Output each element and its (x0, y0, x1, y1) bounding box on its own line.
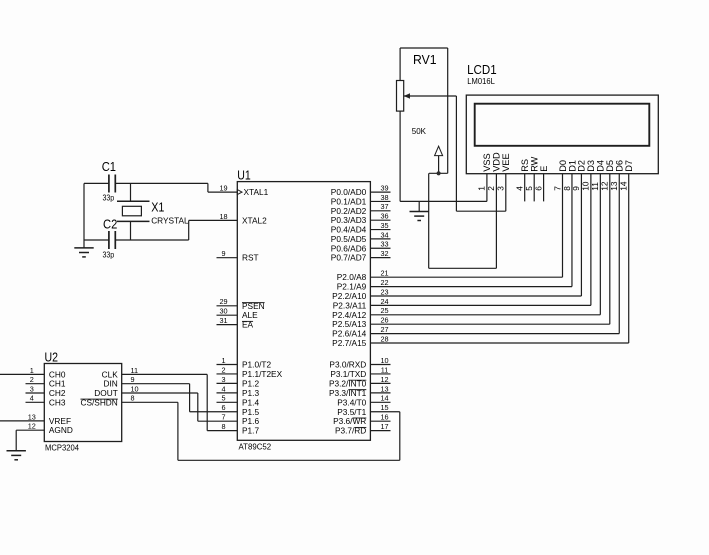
svg-text:12: 12 (28, 422, 36, 431)
wire: step to XTAL1 pin 19 (207, 183, 209, 192)
svg-text:29: 29 (219, 297, 227, 306)
svg-text:50K: 50K (412, 126, 427, 136)
svg-text:LM016L: LM016L (467, 76, 495, 86)
wire: RV1 top lead loop (399, 48, 401, 81)
pin 17 P3.7/RD (370, 430, 390, 432)
svg-text:6: 6 (221, 403, 225, 412)
junction dot power node (437, 171, 441, 175)
pin 14 D7 (628, 174, 630, 343)
svg-text:LCD1: LCD1 (467, 63, 497, 77)
svg-text:2: 2 (30, 375, 34, 384)
ADC U2 box (44, 364, 121, 442)
pin 21 P2.0/A8 (370, 276, 562, 278)
svg-text:3: 3 (221, 375, 225, 384)
svg-text:38: 38 (380, 193, 388, 202)
svg-text:RV1: RV1 (413, 53, 437, 67)
pin 13 P3.3/INT1 (370, 392, 390, 394)
svg-text:VEE: VEE (501, 153, 511, 171)
ground (crystal circuit) (83, 240, 85, 248)
wire: DIN to P1.5 (122, 383, 190, 385)
pin 31 EA (217, 324, 238, 326)
svg-text:3: 3 (496, 186, 506, 191)
svg-text:13: 13 (28, 412, 36, 421)
svg-text:8: 8 (221, 422, 225, 431)
pin 15 P3.5/T1 (370, 411, 399, 413)
svg-text:11: 11 (131, 366, 139, 375)
pin 7 P1.6 (198, 420, 238, 422)
svg-text:3: 3 (30, 384, 34, 393)
svg-text:30: 30 (219, 307, 227, 316)
wire: wiper to VEE (455, 96, 457, 211)
pin 39 P0.0/AD0 (370, 191, 390, 193)
pin 4 RS (524, 174, 526, 202)
svg-text:26: 26 (380, 316, 388, 325)
svg-text:XTAL2: XTAL2 (242, 215, 267, 225)
svg-text:AT89C52: AT89C52 (239, 442, 272, 452)
potentiometer RV1 body (397, 81, 404, 112)
pin 24 P2.3/A11 (370, 304, 590, 306)
pin 23 P2.2/A10 (370, 295, 581, 297)
pin 27 P2.6/A14 (370, 333, 619, 335)
crystal X1 (117, 200, 150, 202)
svg-text:XTAL1: XTAL1 (244, 187, 269, 197)
wire: DOUT to P1.6 (122, 392, 198, 394)
svg-text:7: 7 (221, 413, 225, 422)
pin 36 P0.3/AD3 (370, 219, 390, 221)
svg-text:P2.7/A15: P2.7/A15 (332, 338, 367, 348)
pin 32 P0.7/AD7 (370, 257, 390, 259)
svg-text:U2: U2 (45, 350, 59, 364)
svg-text:E: E (539, 166, 549, 172)
pin 28 P2.7/A15 (370, 342, 628, 344)
svg-text:VSS: VSS (482, 153, 492, 171)
pin 1 P1.0/T2 (217, 364, 238, 366)
pin 4 CH3 (26, 401, 45, 403)
svg-text:CH3: CH3 (49, 397, 66, 407)
svg-text:X1: X1 (151, 201, 164, 215)
svg-text:1: 1 (30, 366, 34, 375)
pin 9 RST (217, 257, 238, 259)
pin 3 CH2 (26, 392, 45, 394)
pin 12 AGND (16, 429, 44, 431)
svg-text:10: 10 (380, 356, 388, 365)
pin 6 E (543, 174, 545, 202)
svg-text:35: 35 (380, 221, 388, 230)
svg-text:19: 19 (219, 184, 227, 193)
ground (U2 AGND) (15, 430, 17, 451)
svg-text:15: 15 (380, 403, 388, 412)
svg-text:C1: C1 (102, 160, 116, 174)
svg-text:14: 14 (380, 394, 388, 403)
pin 16 P3.6/WR (370, 420, 390, 422)
pin 2 VDD (495, 174, 497, 269)
svg-text:6: 6 (533, 186, 543, 191)
svg-text:5: 5 (221, 394, 225, 403)
wire: left vertical (ground net) (83, 183, 85, 240)
pin 11 P3.1/TXD (370, 373, 390, 375)
pin 8 P1.7 (207, 430, 237, 432)
wire: power node to VDD (428, 173, 430, 268)
pin 11 D4 (599, 174, 601, 315)
pin 34 P0.5/AD5 (370, 238, 390, 240)
svg-text:22: 22 (380, 278, 388, 287)
pin 9 D2 (580, 174, 582, 296)
svg-text:RS: RS (520, 159, 530, 172)
svg-text:16: 16 (380, 413, 388, 422)
capacitor C1 (108, 175, 110, 193)
svg-text:27: 27 (380, 325, 388, 334)
svg-text:1: 1 (477, 186, 487, 191)
svg-text:4: 4 (30, 394, 34, 403)
svg-text:28: 28 (380, 334, 388, 343)
power terminal arrow (435, 146, 443, 155)
pin 3 P1.2 (217, 382, 238, 384)
pin 25 P2.4/A12 (370, 314, 600, 316)
pin 6 P1.5 (190, 411, 238, 413)
wire: ground net to VSS (400, 200, 487, 202)
pin 7 D0 (562, 174, 564, 278)
wire: RV1 bottom lead (399, 111, 401, 201)
ground (VSS / RV1) (418, 201, 420, 211)
svg-text:31: 31 (219, 316, 227, 325)
wire: step to XTAL2 pin 18 (188, 220, 190, 240)
wire: crystal top lead (130, 183, 132, 201)
svg-text:34: 34 (380, 230, 388, 239)
pin 8 D1 (571, 174, 573, 287)
svg-text:D7: D7 (624, 160, 634, 172)
svg-text:4: 4 (221, 384, 225, 393)
microcontroller U1 box (237, 182, 370, 441)
svg-text:RST: RST (242, 253, 259, 263)
pin 22 P2.1/A9 (370, 286, 572, 288)
svg-text:13: 13 (380, 384, 388, 393)
overline CS/SHDN (80, 398, 117, 400)
pin 5 RW (533, 174, 535, 202)
svg-text:MCP3204: MCP3204 (45, 442, 79, 452)
svg-text:18: 18 (219, 212, 227, 221)
svg-text:12: 12 (380, 375, 388, 384)
pin 10 D3 (590, 174, 592, 306)
wire: crystal bottom lead (130, 221, 132, 240)
pin 29 PSEN (217, 305, 238, 307)
svg-text:24: 24 (380, 297, 388, 306)
svg-text:AGND: AGND (49, 425, 73, 435)
svg-text:9: 9 (131, 375, 135, 384)
svg-text:17: 17 (380, 422, 388, 431)
LCD display window (475, 104, 650, 146)
pin 14 P3.4/T0 (370, 401, 390, 403)
svg-text:36: 36 (380, 212, 388, 221)
svg-text:U1: U1 (237, 168, 251, 182)
LCD1 display outer box (466, 95, 658, 174)
wire: XTAL2 net horizontal (84, 239, 109, 241)
svg-text:39: 39 (380, 184, 388, 193)
wire: XTAL1 net horizontal (84, 182, 109, 184)
svg-text:32: 32 (380, 249, 388, 258)
svg-text:10: 10 (131, 384, 139, 393)
pin 5 P1.4 (217, 401, 238, 403)
pin 4 P1.3 (217, 392, 238, 394)
pin 1 VSS (486, 174, 488, 202)
svg-text:CRYSTAL: CRYSTAL (151, 216, 189, 226)
svg-text:25: 25 (380, 306, 388, 315)
pin 13 D6 (618, 174, 620, 334)
pin 33 P0.6/AD6 (370, 247, 390, 249)
svg-text:21: 21 (380, 269, 388, 278)
svg-text:23: 23 (380, 287, 388, 296)
pin 10 P3.0/RXD (370, 364, 390, 366)
svg-text:2: 2 (221, 365, 225, 374)
svg-text:P1.7: P1.7 (242, 426, 259, 436)
wire: CS/SHDN to P3.5/T1 (122, 401, 178, 403)
svg-text:33p: 33p (103, 193, 115, 203)
pin 37 P0.2/AD2 (370, 210, 390, 212)
pin 30 ALE (217, 314, 238, 316)
capacitor C2 (108, 231, 110, 249)
pin 35 P0.4/AD4 (370, 229, 390, 231)
svg-text:9: 9 (221, 249, 225, 258)
pin 1 CH0 (0, 373, 44, 375)
svg-text:C2: C2 (103, 218, 117, 232)
pin 13 VREF (0, 420, 44, 422)
svg-text:11: 11 (381, 365, 389, 374)
svg-text:8: 8 (131, 394, 135, 403)
pin 2 P1.1/T2EX (217, 373, 238, 375)
svg-text:33p: 33p (103, 250, 115, 260)
RV1 wiper arrow (404, 93, 410, 99)
pin 12 D5 (609, 174, 611, 325)
svg-text:1: 1 (221, 356, 225, 365)
pin 3 VEE (505, 174, 507, 212)
svg-text:4: 4 (515, 186, 525, 191)
svg-text:33: 33 (380, 240, 388, 249)
pin 38 P0.1/AD1 (370, 200, 390, 202)
svg-text:P0.7/AD7: P0.7/AD7 (331, 253, 367, 263)
pin 26 P2.5/A13 (370, 323, 609, 325)
pin 2 CH1 (26, 383, 45, 385)
wire: CLK to P1.7 (122, 373, 208, 375)
svg-text:14: 14 (619, 181, 629, 191)
svg-text:37: 37 (380, 202, 388, 211)
pin 12 P3.2/INT0 (370, 382, 390, 384)
